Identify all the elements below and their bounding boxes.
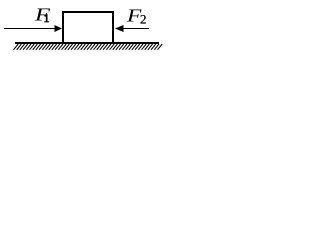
hatching below ground (14, 44, 163, 50)
block M (63, 12, 113, 43)
ground line (15, 42, 159, 44)
wire F2 shaft (122, 28, 149, 29)
arrowhead F1 (55, 25, 63, 32)
wire F1 shaft (4, 28, 56, 29)
svg-text:2: 2 (140, 12, 147, 27)
arrowhead F2 (115, 25, 124, 32)
background (0, 0, 168, 58)
svg-text:1: 1 (44, 11, 50, 25)
